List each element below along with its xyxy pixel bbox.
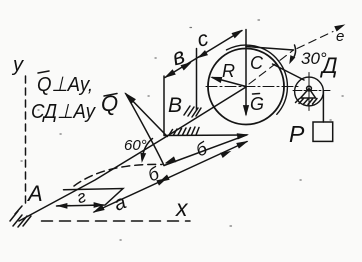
svg-text:е: е xyxy=(336,28,344,45)
pulley D circle xyxy=(295,77,324,106)
rope arc over drum xyxy=(227,45,288,114)
weight box xyxy=(313,122,333,141)
horizontal line under circle xyxy=(165,134,247,137)
left vertical of B-rectangle xyxy=(163,76,165,136)
gravity G arrow xyxy=(245,87,247,115)
dimension line v-s (top incline) xyxy=(165,31,242,78)
force Q arrow from rod junction xyxy=(126,94,168,137)
hatch wedge above line xyxy=(169,127,199,135)
svg-text:B: B xyxy=(168,94,182,117)
30 degree arc xyxy=(292,45,296,60)
rod A to C xyxy=(19,87,246,221)
rope down to weight xyxy=(322,92,324,123)
scan specks xyxy=(21,20,343,240)
svg-text:R: R xyxy=(222,61,235,81)
big drum circle xyxy=(208,49,284,125)
svg-text:x: x xyxy=(175,195,189,221)
svg-text:Q⊥Ay,: Q⊥Ay, xyxy=(37,73,93,96)
pulley crosshair xyxy=(293,90,330,92)
svg-text:СД⊥Ay: СД⊥Ay xyxy=(31,101,96,123)
pulley axle dot xyxy=(307,86,312,91)
dash-dot horizontal through C xyxy=(206,86,299,88)
pulley support hatch xyxy=(296,99,318,105)
dimension L line (a,b1) xyxy=(94,142,247,213)
dimension U line (b2) xyxy=(164,135,247,166)
support hatching at A xyxy=(10,206,31,227)
svg-text:б: б xyxy=(145,163,163,186)
svg-text:а: а xyxy=(111,191,130,216)
vertical at B xyxy=(196,49,198,111)
horizontal to 30 vertex xyxy=(246,47,294,51)
dimension g arrows xyxy=(58,204,103,207)
vertical through C xyxy=(245,30,247,88)
radius R arrow xyxy=(213,78,247,87)
svg-text:G: G xyxy=(250,94,264,114)
bar over Q xyxy=(38,71,49,73)
rope from drum to pulley xyxy=(273,64,305,80)
e axis arrowhead xyxy=(335,25,344,31)
svg-text:Д: Д xyxy=(319,53,338,78)
dashed e axis xyxy=(297,32,333,49)
plate parallelogram (g-plate) xyxy=(57,189,124,207)
svg-text:A: A xyxy=(26,181,43,206)
Q construction line from V1 xyxy=(127,95,165,166)
x axis dashed xyxy=(42,220,191,222)
svg-text:C: C xyxy=(250,53,264,73)
dashed projection line to V1 xyxy=(74,164,162,186)
bearing hatch at B xyxy=(184,106,201,117)
svg-text:y: y xyxy=(11,54,24,76)
svg-text:P: P xyxy=(289,121,305,147)
60 degree arc arrow xyxy=(142,139,153,160)
svg-text:в: в xyxy=(168,42,187,70)
pulley support triangle xyxy=(301,89,316,99)
svg-text:с: с xyxy=(195,27,212,52)
dashed hypotenuse C to vertex xyxy=(249,50,294,84)
y axis dashed xyxy=(25,76,27,207)
